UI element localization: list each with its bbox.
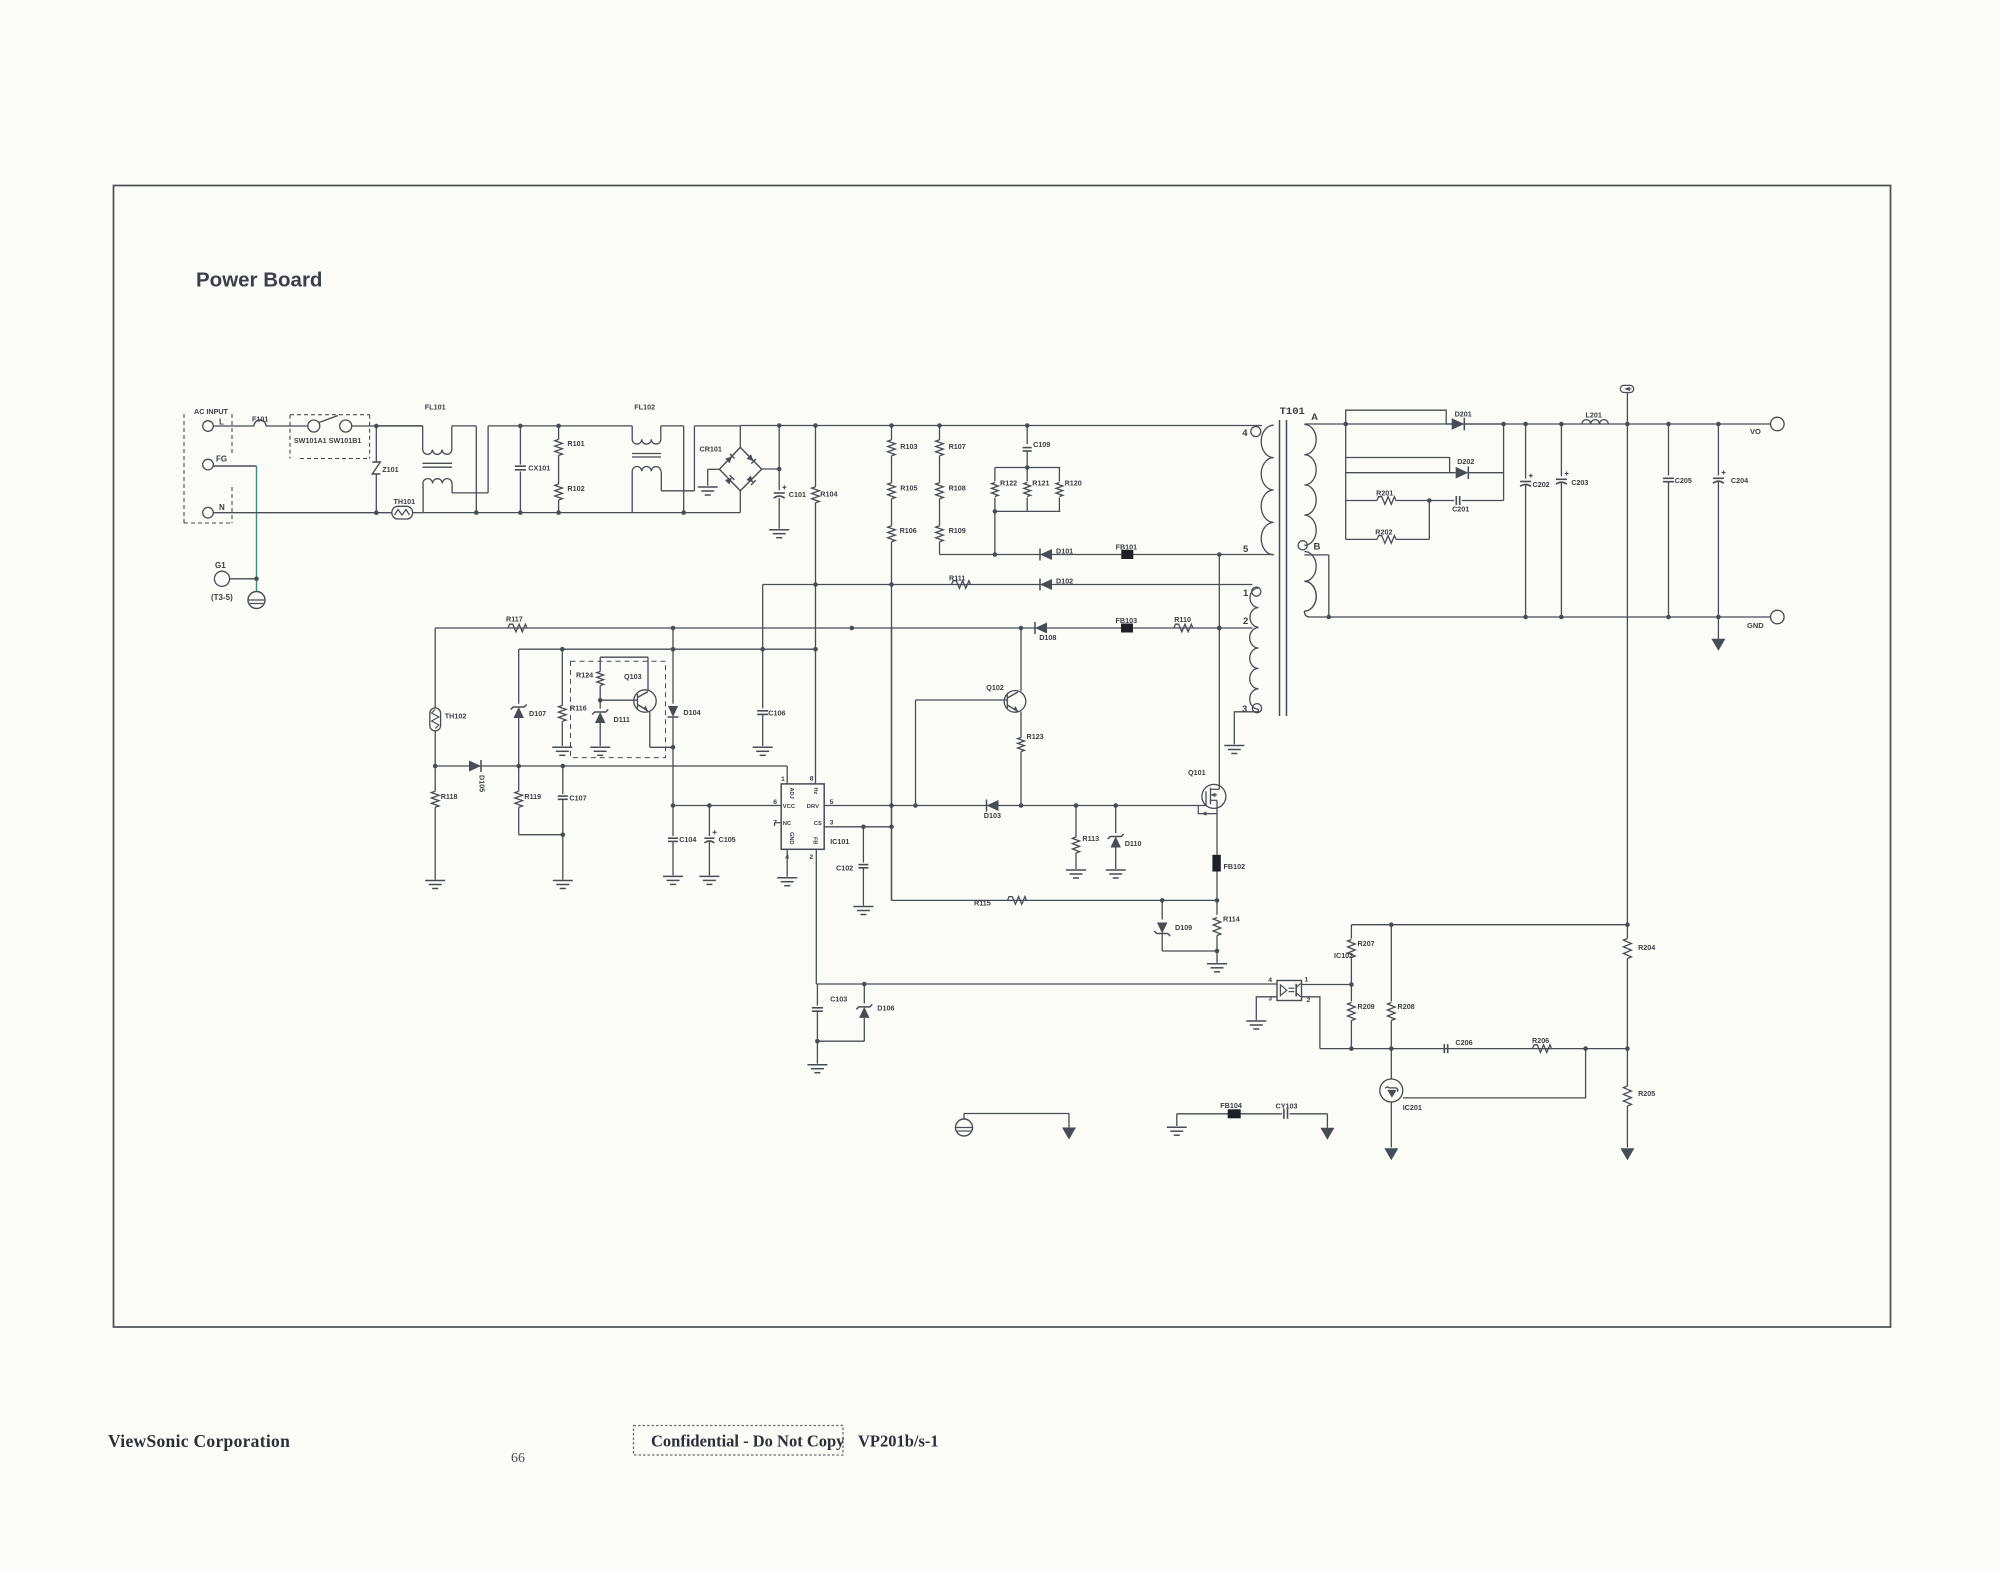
svg-text:C105: C105 — [719, 835, 736, 844]
wire R117 corner down to TH102 — [434, 628, 436, 708]
wire CS corner to R115 — [891, 827, 893, 901]
R115 line wire — [892, 899, 1218, 901]
ferrite bead FB103 — [1121, 624, 1133, 633]
snubber loop wire D201 — [1346, 410, 1447, 424]
svg-text:F101: F101 — [252, 415, 268, 424]
capacitor CY103 — [1282, 1108, 1289, 1120]
wire test point vertical — [1626, 393, 1628, 425]
svg-text:TH102: TH102 — [445, 712, 467, 721]
resistor R116 — [561, 649, 563, 705]
resistor R206 — [1533, 1045, 1552, 1053]
svg-text:1: 1 — [1305, 977, 1309, 984]
svg-text:C206: C206 — [1455, 1038, 1472, 1047]
drawing border frame — [114, 186, 1891, 1328]
resistor R124 — [600, 656, 648, 658]
shunt regulator IC201 — [1380, 1079, 1403, 1102]
wire C204 below rail — [1717, 617, 1719, 639]
VO rail wire — [1304, 423, 1770, 425]
svg-text:VCC: VCC — [783, 804, 796, 810]
svg-text:R115: R115 — [974, 899, 991, 908]
svg-text:R202: R202 — [1375, 528, 1392, 537]
terminal FG — [203, 459, 214, 470]
ADJ line wire — [435, 765, 787, 767]
varistor Z101 — [375, 426, 377, 462]
ground D111 — [590, 746, 610, 748]
wire TH101 to FL101 — [413, 512, 424, 514]
svg-text:TH101: TH101 — [394, 497, 416, 506]
IC102 pin3 ground wire — [1256, 997, 1277, 1020]
resistor R204 — [1623, 939, 1631, 959]
svg-text:CY103: CY103 — [1276, 1102, 1298, 1111]
svg-text:CR101: CR101 — [700, 445, 722, 454]
svg-text:R122: R122 — [1000, 479, 1017, 488]
resistor R114 — [1216, 900, 1218, 914]
capacitor C104 — [672, 806, 674, 837]
resistor R123 — [1020, 712, 1022, 738]
capacitor C106 — [762, 649, 764, 708]
wire C106 corner to T101 pin1 — [763, 584, 1253, 586]
capacitor C103 — [816, 984, 818, 1006]
svg-text:Q103: Q103 — [624, 672, 642, 681]
T101 pin3 circle — [1252, 704, 1261, 713]
resistor R108 — [939, 456, 941, 483]
diode D102 — [1039, 579, 1041, 591]
wire bridge left to ground — [708, 468, 720, 470]
svg-text:FB101: FB101 — [1116, 543, 1138, 552]
svg-text:C201: C201 — [1452, 505, 1469, 514]
svg-text:VO: VO — [1750, 427, 1761, 436]
svg-text:FB102: FB102 — [1224, 862, 1246, 871]
node switch-Z101 junction — [374, 424, 379, 429]
svg-text:G1: G1 — [215, 561, 226, 570]
wire Q101 source to FB102 — [1216, 800, 1218, 855]
top rail wire B+ — [740, 425, 1262, 427]
svg-text:VP201b/s-1: VP201b/s-1 — [858, 1432, 939, 1451]
controller IC101 — [781, 784, 824, 849]
svg-text:NC: NC — [783, 821, 792, 827]
capacitor C204 — [1717, 424, 1719, 475]
svg-text:R208: R208 — [1398, 1002, 1415, 1011]
svg-text:R109: R109 — [949, 526, 966, 535]
wire fuse to switch — [266, 425, 308, 427]
ground R116 — [552, 746, 572, 748]
svg-text:C204: C204 — [1731, 476, 1748, 485]
resistor R105 — [891, 456, 893, 483]
capacitor C203 — [1560, 424, 1562, 476]
svg-text:T101: T101 — [1280, 406, 1305, 418]
zener D110 — [1115, 806, 1117, 834]
svg-text:R206: R206 — [1532, 1036, 1549, 1045]
svg-text:C104: C104 — [679, 835, 696, 844]
svg-text:Z101: Z101 — [382, 465, 398, 474]
ferrite bead FB104 — [1228, 1109, 1241, 1118]
earth to chassis bond wire — [963, 1114, 965, 1120]
svg-text:R106: R106 — [900, 526, 917, 535]
svg-text:Power Board: Power Board — [196, 269, 322, 292]
svg-text:ViewSonic Corporation: ViewSonic Corporation — [108, 1431, 290, 1451]
ground IC102 pin3 — [1246, 1020, 1266, 1022]
resistor R202 — [1346, 538, 1377, 540]
GND rail wire — [1310, 616, 1771, 618]
wire IC201 ref link — [1403, 1049, 1586, 1098]
wire D109 to R114 bottom — [1162, 950, 1217, 952]
terminal G1 — [214, 571, 229, 586]
svg-text:D105: D105 — [478, 775, 487, 792]
terminal L — [203, 421, 214, 432]
svg-text:C202: C202 — [1533, 480, 1550, 489]
svg-text:1: 1 — [781, 776, 785, 783]
svg-text:3: 3 — [830, 820, 834, 827]
wire D202 loop — [1345, 424, 1347, 539]
capacitor C202 — [1525, 424, 1527, 479]
wire B tap — [1304, 554, 1328, 556]
ground C107 — [553, 880, 573, 882]
wire FB102 to R115 node — [1216, 872, 1218, 901]
IC101 pin2 FB wire — [815, 849, 817, 984]
AC input dashed bracket — [183, 414, 185, 523]
test point — [1620, 385, 1633, 392]
terminal GND — [1771, 610, 1785, 624]
T101 aux winding 2-3 — [1250, 628, 1259, 710]
IC102 pin1 wire — [1302, 984, 1352, 986]
svg-text:5: 5 — [1243, 544, 1249, 555]
wire test point to R204 — [1626, 424, 1628, 925]
T101 primary winding 4-5 — [1261, 425, 1274, 555]
svg-text:R104: R104 — [820, 490, 837, 499]
svg-text:3: 3 — [1242, 704, 1247, 715]
svg-text:R205: R205 — [1638, 1089, 1655, 1098]
dashed box Q103 group — [571, 661, 666, 757]
svg-text:D107: D107 — [529, 709, 546, 718]
zener D111 — [599, 700, 601, 709]
capacitor C205 — [1668, 424, 1670, 475]
svg-text:R113: R113 — [1082, 834, 1099, 843]
T101 pin4 circle — [1251, 427, 1261, 437]
wire R207 top line — [1351, 924, 1627, 926]
svg-text:FL102: FL102 — [634, 403, 655, 412]
svg-text:R118: R118 — [441, 792, 458, 801]
node Q103 base junction — [598, 698, 603, 703]
svg-text:IC201: IC201 — [1403, 1103, 1422, 1112]
ground C106 — [753, 746, 773, 748]
resistor R103 — [891, 426, 893, 440]
T101 secondary winding A-B — [1304, 425, 1316, 546]
T101 secondary winding B-end — [1304, 552, 1316, 612]
svg-text:R111: R111 — [949, 574, 965, 583]
svg-text:C106: C106 — [768, 709, 785, 718]
IC101 pin7 stub — [775, 822, 782, 824]
resistor R119 — [518, 766, 520, 791]
wire FL101 to CX101 top — [488, 425, 520, 427]
resistor R101 — [556, 424, 561, 429]
svg-text:66: 66 — [511, 1451, 525, 1466]
diode D104 — [672, 628, 674, 704]
svg-text:D103: D103 — [984, 811, 1001, 820]
wire R109 to T101 pin5 — [940, 554, 1274, 556]
resistor R110 — [1174, 624, 1193, 632]
wire D202 to VO rail vertical — [1503, 424, 1505, 501]
ground T101 pin3 — [1224, 745, 1244, 747]
resistor R104 — [815, 426, 817, 487]
earth ground bond — [956, 1119, 973, 1136]
wire bridge bottom — [739, 491, 741, 513]
ground bridge left — [698, 486, 718, 488]
svg-text:C203: C203 — [1571, 478, 1588, 487]
svg-text:R117: R117 — [506, 615, 523, 624]
wire switch to junction — [352, 425, 423, 427]
svg-text:AC INPUT: AC INPUT — [194, 407, 229, 416]
wire CY103 to chassis ground — [1326, 1114, 1328, 1128]
svg-text:L201: L201 — [1586, 411, 1602, 420]
svg-text:R204: R204 — [1638, 943, 1655, 952]
svg-text:D202: D202 — [1457, 457, 1474, 466]
wire Q102 collector — [1020, 627, 1022, 691]
svg-text:8: 8 — [810, 775, 814, 782]
wire bridge right to C101 — [762, 468, 780, 470]
svg-text:R102: R102 — [567, 484, 584, 493]
wire box to D101 line — [993, 509, 998, 514]
svg-text:2: 2 — [809, 854, 813, 861]
svg-text:1: 1 — [1243, 588, 1249, 599]
wire R103 column lower — [891, 628, 893, 827]
inductor L201 — [1582, 420, 1608, 424]
svg-text:R207: R207 — [1358, 939, 1375, 948]
svg-text:R119: R119 — [524, 792, 541, 801]
capacitor C105 — [708, 806, 710, 837]
snubber resistor box R122 R121 R120 — [995, 467, 1060, 469]
wire FL101 crossover vertical — [475, 426, 477, 513]
wire D104 to VCC line — [672, 747, 674, 805]
svg-text:N: N — [219, 503, 225, 512]
terminal VO — [1771, 417, 1785, 431]
svg-text:C109: C109 — [1033, 440, 1050, 449]
svg-text:C102: C102 — [836, 864, 853, 873]
wire R106 down to DRV line — [891, 542, 893, 901]
switch box dashed — [289, 415, 291, 459]
svg-text:GND: GND — [788, 832, 794, 844]
svg-text:Hz: Hz — [812, 788, 818, 795]
resistor R118 — [434, 766, 436, 791]
svg-text:CX101: CX101 — [528, 464, 550, 473]
svg-text:FB104: FB104 — [1220, 1101, 1242, 1110]
svg-text:D101: D101 — [1056, 547, 1073, 556]
wire PG green to earth — [213, 465, 256, 467]
capacitor CX101 — [518, 424, 523, 429]
VCC line wire — [673, 805, 781, 807]
svg-text:D111: D111 — [614, 715, 630, 724]
svg-text:C101: C101 — [789, 490, 806, 499]
ground D110 — [1106, 869, 1126, 871]
wire C106 vertical — [762, 585, 764, 650]
ground R114 — [1216, 951, 1218, 963]
wire TH102 to ADJ line — [434, 731, 436, 766]
svg-text:R116: R116 — [570, 704, 587, 713]
capacitor C206 — [1443, 1044, 1445, 1053]
CS line wire — [824, 826, 891, 828]
resistor R107 — [939, 426, 941, 440]
feedback bottom line wire — [1320, 1048, 1628, 1050]
svg-text:GND: GND — [1747, 621, 1764, 630]
wire D107 to IC101 pin8 — [519, 648, 816, 650]
svg-text:D104: D104 — [683, 708, 700, 717]
chassis ground bond — [1062, 1128, 1076, 1140]
resistor R113 — [1075, 806, 1077, 838]
bottom rail wire — [423, 512, 740, 514]
T101 aux winding 1-2 — [1250, 588, 1259, 627]
svg-text:D110: D110 — [1125, 839, 1142, 848]
T101 pin B circle — [1298, 541, 1307, 550]
capacitor C101 — [778, 426, 780, 491]
svg-text:C103: C103 — [830, 995, 847, 1004]
svg-text:R108: R108 — [949, 484, 966, 493]
svg-text:DRV: DRV — [807, 804, 819, 810]
FB line wire to IC102 — [816, 983, 1277, 985]
svg-text:R114: R114 — [1223, 915, 1240, 924]
wire N to TH101 — [213, 512, 392, 514]
svg-text:FB: FB — [812, 837, 818, 844]
svg-text:R110: R110 — [1174, 615, 1191, 624]
ferrite bead FB104 wire — [1177, 1113, 1328, 1115]
svg-text:B: B — [1314, 542, 1321, 553]
diode D101 — [1039, 549, 1041, 561]
resistor R209 — [1350, 985, 1352, 1002]
ferrite bead FB102 — [1212, 855, 1220, 872]
ground C104 — [663, 875, 683, 877]
switch SW101A1 SW101B1 — [308, 420, 320, 432]
wire R202 up to R201 — [1428, 501, 1430, 540]
ground C102 — [853, 906, 873, 908]
wire Q103 emitter — [649, 712, 651, 748]
svg-text:SW101A1 SW101B1: SW101A1 SW101B1 — [294, 436, 362, 445]
svg-text:A: A — [1311, 412, 1318, 423]
wire R117 line to T101 pin2 — [435, 627, 1252, 629]
capacitor C102 — [862, 827, 864, 863]
chassis ground R205 — [1620, 1148, 1634, 1160]
diode D108 — [1034, 622, 1036, 634]
ground FB104 left — [1176, 1114, 1178, 1126]
wire Q102 base line — [915, 700, 917, 806]
svg-text:IC101: IC101 — [830, 837, 849, 846]
resistor R102 — [555, 484, 563, 500]
svg-text:R123: R123 — [1027, 732, 1044, 741]
resistor R201 — [1346, 500, 1377, 502]
svg-text:L: L — [219, 418, 224, 427]
svg-text:ADJ: ADJ — [788, 788, 794, 799]
svg-text:R201: R201 — [1376, 489, 1393, 498]
zener D107 — [518, 649, 520, 704]
terminal N — [203, 507, 214, 518]
ferrite bead FB101 — [1121, 550, 1133, 559]
wire C103 D106 bottom link — [817, 1040, 864, 1042]
svg-text:R120: R120 — [1065, 479, 1082, 488]
wire T101 pin3 to ground — [1234, 709, 1258, 744]
chassis ground CY103 — [1320, 1128, 1334, 1140]
svg-text:2: 2 — [1243, 616, 1248, 627]
ground R118 — [425, 880, 445, 882]
svg-text:D109: D109 — [1175, 923, 1192, 932]
svg-text:FL101: FL101 — [425, 403, 446, 412]
svg-text:R101: R101 — [567, 439, 584, 448]
svg-text:R121: R121 — [1032, 479, 1049, 488]
IC101 pin4 ground — [786, 849, 788, 876]
svg-text:IC102: IC102 — [1334, 951, 1353, 960]
svg-text:R105: R105 — [900, 484, 917, 493]
svg-text:Q101: Q101 — [1188, 768, 1206, 777]
footer confidential box — [634, 1426, 844, 1456]
capacitor C107 — [562, 766, 564, 794]
wire G1 to earth stem — [230, 578, 257, 580]
svg-text:D102: D102 — [1056, 577, 1073, 586]
svg-text:CS: CS — [814, 821, 822, 827]
resistor R106 — [891, 499, 893, 526]
T101 pin1 circle — [1252, 587, 1261, 596]
diode D105 — [480, 760, 482, 772]
svg-text:C205: C205 — [1675, 476, 1692, 485]
diode D201 — [1463, 418, 1465, 431]
svg-text:R209: R209 — [1358, 1002, 1375, 1011]
wire T101 pin5/pin2 junction vertical to Q101 drain — [1218, 555, 1220, 629]
resistor R208 — [1390, 925, 1392, 1002]
svg-text:Confidential - Do Not Copy: Confidential - Do Not Copy — [651, 1432, 845, 1451]
svg-text:FG: FG — [216, 455, 227, 464]
diode D103 — [986, 800, 988, 812]
diode D202 — [1346, 472, 1456, 474]
chassis ground C204 — [1711, 639, 1725, 651]
ground C101 — [769, 529, 789, 531]
svg-text:R103: R103 — [900, 442, 917, 451]
capacitor C201 — [1429, 500, 1454, 502]
wire IC201 cathode down — [1390, 1102, 1392, 1148]
resistor R109 — [939, 499, 941, 526]
fuse F101 — [254, 420, 266, 426]
svg-text:D106: D106 — [877, 1004, 894, 1013]
svg-text:4: 4 — [1242, 428, 1248, 439]
svg-text:(T3-5): (T3-5) — [211, 593, 233, 602]
svg-text:Q102: Q102 — [986, 683, 1004, 692]
zener D106 — [863, 984, 865, 1004]
svg-text:2: 2 — [1307, 997, 1311, 1004]
resistor R207 — [1350, 925, 1352, 939]
IC102 pin2 wire — [1302, 997, 1320, 1049]
svg-text:4: 4 — [1268, 977, 1272, 984]
svg-text:C107: C107 — [569, 794, 586, 803]
svg-text:6: 6 — [773, 799, 777, 806]
wire R119 to C107 bottom — [519, 834, 563, 836]
zener D109 — [1161, 900, 1163, 919]
svg-text:D201: D201 — [1455, 410, 1472, 419]
svg-text:FB103: FB103 — [1116, 616, 1138, 625]
wire R208 to IC201 — [1390, 1049, 1392, 1079]
thermistor TH102 — [430, 708, 441, 731]
resistor R111 — [952, 581, 971, 589]
resistor R115 — [1008, 897, 1027, 905]
svg-text:R124: R124 — [576, 671, 593, 680]
capacitor C109 — [1026, 426, 1028, 445]
resistor R205 — [1623, 1086, 1631, 1106]
ground R113 — [1066, 869, 1086, 871]
resistor R117 — [508, 624, 527, 632]
svg-text:D108: D108 — [1039, 633, 1056, 642]
svg-text:R107: R107 — [949, 442, 966, 451]
wire L to fuse — [213, 425, 254, 427]
node R207 pin1 junction — [1349, 982, 1354, 987]
earth ground AC input — [248, 592, 265, 609]
chassis ground IC201 — [1384, 1148, 1398, 1160]
Q101 source-body strap with arrow — [1198, 806, 1217, 814]
ground C103 — [816, 1041, 818, 1064]
ground C105 — [699, 875, 719, 877]
DRV gate line wire — [824, 805, 1207, 807]
